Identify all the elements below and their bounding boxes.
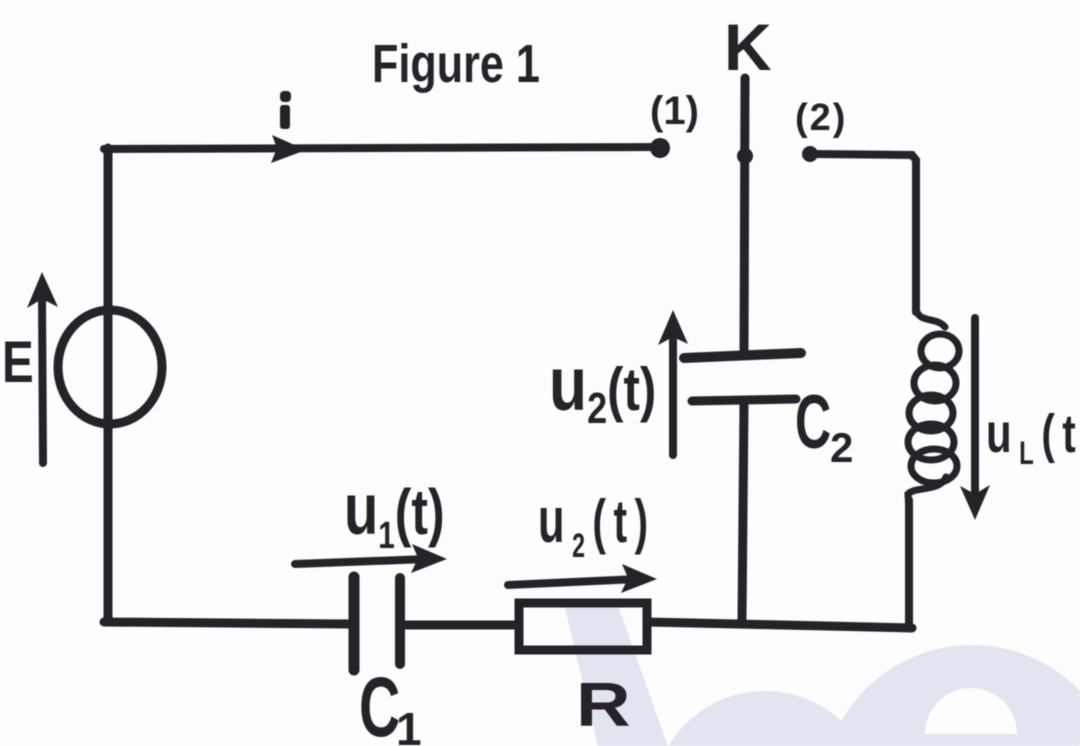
svg-text:(1): (1) [650,89,699,133]
svg-text:1: 1 [396,703,422,746]
resistor R [519,603,647,650]
arrow u2 (C2) [669,328,677,455]
svg-text:u1(t): u1(t) [344,469,445,557]
svg-text:K: K [724,10,772,84]
svg-text:C: C [795,380,831,465]
arrow uR [508,579,638,585]
wire right branch lower [905,500,913,628]
label C2 [795,380,831,465]
switch K vertical wire [744,78,745,354]
svg-text:R: R [576,670,631,740]
label u1(t) [344,469,445,557]
wire left vertical [104,148,113,622]
current arrow i [271,135,306,163]
wire bottom left [104,622,352,624]
wire middle branch lower [742,404,744,620]
label u2(t) middle [549,341,656,433]
svg-text:Figure 1: Figure 1 [372,35,540,95]
watermark [563,600,1080,746]
label uL [986,402,1080,471]
svg-text:2: 2 [830,424,853,471]
capacitor C1 [349,577,360,670]
svg-text:uL(t): uL(t) [986,402,1080,471]
svg-text:C: C [359,661,400,746]
wire bottom right [647,622,912,628]
svg-text:(2): (2) [795,97,847,139]
svg-text:u2(t): u2(t) [549,341,656,433]
svg-text:E: E [2,331,34,396]
capacitor C2 [684,353,801,358]
wire node2 to right branch [812,154,916,312]
wire top horizontal [104,147,658,149]
arrow uL [971,318,979,498]
title Figure 1 [372,35,540,95]
inductor L coil [908,308,959,512]
wire bottom mid [402,621,519,630]
node (1) [650,138,670,158]
label i [280,91,291,129]
arrow u1 [295,559,428,564]
label E [2,331,34,396]
source E (circle) [58,310,162,424]
svg-text:u2(t): u2(t) [538,484,656,566]
label uR(t) [538,484,656,566]
node (2) [802,146,818,162]
label C1 [359,661,400,746]
arrow E [42,296,43,463]
label R [576,670,631,740]
